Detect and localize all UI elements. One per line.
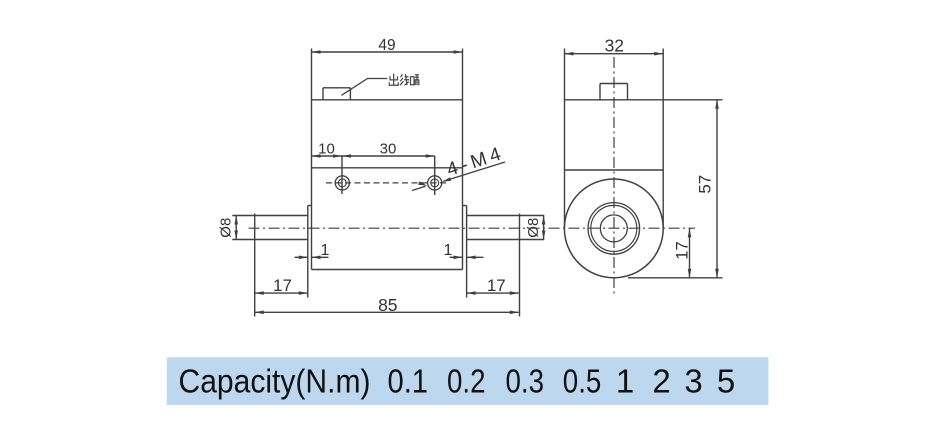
svg-text:Capacity(N.m): Capacity(N.m) — [179, 362, 371, 399]
svg-text:10: 10 — [318, 141, 335, 158]
svg-text:0.2: 0.2 — [447, 362, 486, 399]
svg-text:17: 17 — [674, 241, 692, 259]
svg-text:32: 32 — [605, 35, 624, 55]
svg-text:1: 1 — [321, 242, 330, 259]
svg-text:1: 1 — [444, 242, 453, 259]
svg-text:85: 85 — [378, 295, 397, 315]
svg-text:17: 17 — [273, 276, 292, 295]
svg-text:1: 1 — [616, 362, 634, 399]
svg-text:0.5: 0.5 — [563, 362, 602, 399]
svg-text:17: 17 — [487, 276, 506, 295]
svg-text:3: 3 — [684, 362, 702, 399]
svg-text:5: 5 — [717, 362, 735, 399]
svg-text:57: 57 — [696, 175, 715, 194]
svg-text:2: 2 — [652, 362, 670, 399]
svg-text:49: 49 — [378, 37, 395, 54]
svg-text:30: 30 — [380, 141, 397, 158]
svg-text:0.1: 0.1 — [388, 362, 429, 399]
svg-text:0.3: 0.3 — [506, 362, 545, 399]
svg-text:4-M4: 4-M4 — [444, 143, 507, 181]
svg-text:Ø8: Ø8 — [218, 218, 235, 238]
